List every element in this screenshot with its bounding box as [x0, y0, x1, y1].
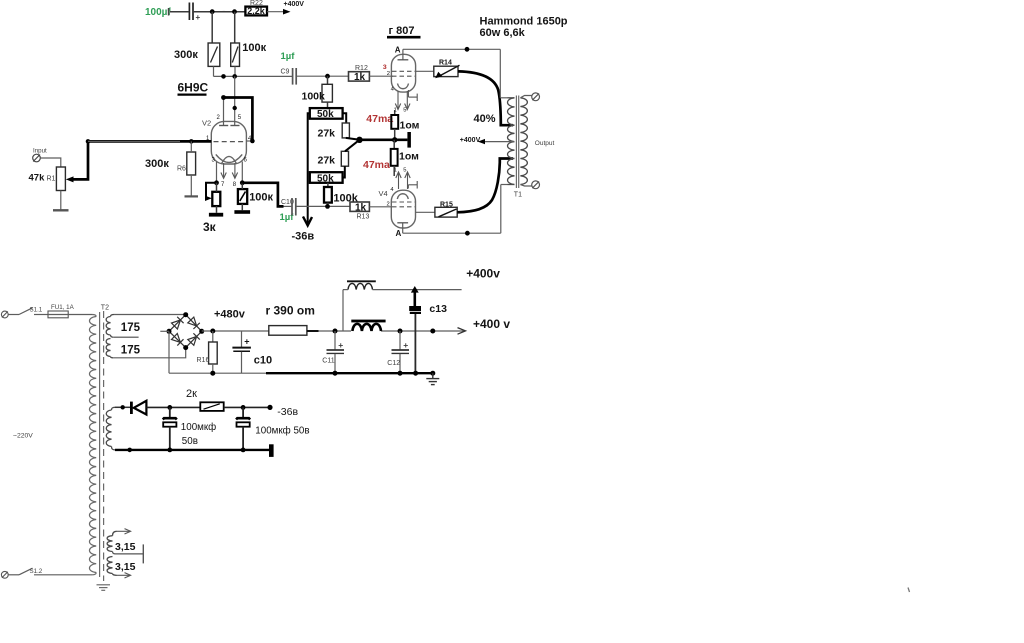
node	[398, 329, 403, 334]
svg-text:V2: V2	[202, 119, 211, 128]
node	[325, 204, 330, 209]
wire to +400V arrow	[267, 1, 304, 15]
svg-text:C12: C12	[387, 360, 400, 367]
svg-text:V4: V4	[379, 189, 388, 198]
resistor 27k upper	[318, 123, 350, 140]
svg-text:100мкф 50в: 100мкф 50в	[255, 425, 309, 436]
wire C10 to R13	[296, 205, 350, 207]
svg-text:47ma: 47ma	[363, 159, 390, 171]
junction thick bus	[356, 132, 411, 148]
wire cathode to C10	[242, 183, 283, 207]
wire thick anode-to-pin4	[224, 98, 253, 142]
resistor R16	[197, 331, 218, 373]
svg-text:A: A	[396, 229, 402, 238]
svg-text:c10: c10	[254, 355, 272, 367]
svg-text:+400 v: +400 v	[473, 317, 510, 331]
svg-text:100к: 100к	[249, 191, 273, 203]
wire R14 to 40% tap (thick curve)	[458, 71, 513, 125]
wire bridge minus down	[168, 331, 170, 373]
svg-text:-36в: -36в	[292, 231, 315, 243]
svg-text:175: 175	[121, 322, 141, 334]
wire pin4 stub	[246, 140, 252, 142]
svg-text:1ом: 1ом	[399, 151, 419, 163]
main B+ rail	[202, 328, 466, 335]
resistor 100k (anode)	[231, 42, 267, 67]
rheostat 3k with wiper	[203, 183, 220, 234]
svg-text:1ом: 1ом	[400, 120, 420, 132]
node	[210, 371, 215, 376]
filament center tap	[113, 544, 144, 563]
wire 2k to -36v	[224, 406, 270, 408]
svg-text:R13: R13	[357, 213, 370, 220]
node	[267, 405, 272, 410]
svg-text:2: 2	[387, 202, 390, 208]
input terminal	[33, 148, 47, 162]
svg-text:Hammond 1650p: Hammond 1650p	[480, 16, 568, 28]
resistor 1om lower	[391, 140, 419, 176]
wire 27k to junction	[346, 138, 360, 140]
svg-text:R16: R16	[197, 357, 210, 364]
resistor 27k lower	[318, 151, 349, 166]
node	[86, 139, 91, 144]
node	[398, 371, 403, 376]
wire	[234, 66, 236, 76]
resistor 1om upper	[391, 110, 419, 140]
center tap +400V arrow	[460, 137, 515, 145]
svg-text:300к: 300к	[145, 158, 169, 170]
potentiometer R1 47k	[29, 167, 66, 191]
resistor r 390 om	[266, 304, 319, 336]
wire	[170, 11, 189, 13]
PSU ground symbol	[426, 373, 439, 384]
svg-text:50в: 50в	[182, 436, 198, 447]
svg-text:47k: 47k	[29, 173, 46, 184]
node	[241, 405, 246, 410]
node	[221, 95, 226, 100]
heater arrows pins 7 8	[221, 163, 238, 178]
100k ground bar	[234, 204, 250, 214]
HV center tap stub	[113, 336, 138, 338]
svg-text:+400V: +400V	[460, 137, 481, 144]
bias feed line -36v	[292, 113, 315, 242]
rheostat 100k cathode	[238, 183, 274, 204]
svg-text:100µf: 100µf	[145, 7, 171, 18]
T2 filament winding 3,15 lower	[107, 557, 116, 576]
node	[241, 448, 246, 453]
svg-text:R6: R6	[177, 166, 186, 173]
T2 chassis ground	[97, 585, 111, 591]
capacitor C12	[387, 331, 409, 373]
resistor R6 300k	[145, 141, 196, 175]
svg-text:5: 5	[403, 168, 406, 174]
resistor R22 2,2k	[245, 0, 267, 16]
node	[411, 286, 419, 293]
node	[167, 448, 172, 453]
svg-text:T2: T2	[101, 304, 109, 311]
svg-text:60w 6,6k: 60w 6,6k	[480, 27, 526, 39]
node	[413, 371, 418, 376]
svg-text:~220V: ~220V	[13, 433, 33, 440]
heater arrows 807 upper	[395, 91, 410, 110]
capacitor C (100uf)	[189, 3, 200, 23]
wire R12 to grid	[369, 75, 391, 77]
trimmer 50k upper	[310, 108, 343, 120]
wire R15 to 40% tap (thick curve)	[457, 159, 513, 213]
svg-text:300к: 300к	[174, 49, 198, 61]
node	[232, 9, 237, 14]
node	[240, 180, 245, 185]
node	[183, 345, 188, 350]
label Hammond	[480, 16, 568, 39]
stray mark	[908, 588, 910, 593]
svg-text:T1: T1	[514, 191, 522, 198]
resistor R15	[435, 201, 457, 217]
node	[333, 371, 338, 376]
svg-text:2к: 2к	[186, 388, 197, 400]
mains terminal bottom	[1, 571, 8, 578]
svg-text:100мкф: 100мкф	[181, 422, 216, 433]
node	[167, 405, 172, 410]
wiper arrow wire to grid	[66, 141, 212, 182]
svg-text:+480v: +480v	[214, 308, 246, 320]
heater arrows 807 lower	[396, 172, 410, 189]
svg-text:27k: 27k	[318, 128, 336, 140]
svg-text:3,15: 3,15	[115, 561, 136, 573]
svg-text:1k: 1k	[355, 202, 367, 213]
svg-text:+: +	[338, 340, 343, 350]
T2 core	[100, 304, 109, 581]
tube 807 lower pin labels	[387, 168, 407, 208]
node	[430, 371, 435, 376]
transformer T1 core	[516, 96, 518, 189]
wire diode to 2k	[146, 406, 200, 408]
transformer T2 primary winding	[89, 315, 96, 575]
wire screen to R14	[416, 70, 434, 72]
capacitor bias 1 (100mkf 50v)	[163, 407, 177, 450]
resistor R14	[434, 60, 460, 79]
cathode lead pin3	[216, 162, 218, 183]
node	[233, 106, 237, 110]
resistor 2k	[186, 388, 224, 411]
diode bias	[130, 401, 146, 415]
wire screen to R15	[416, 211, 435, 213]
node	[333, 329, 338, 334]
trimmer 50k lower	[310, 172, 343, 184]
svg-text:+: +	[196, 13, 201, 22]
node	[214, 180, 219, 185]
anode bottom loop wire	[403, 185, 508, 234]
node	[167, 329, 172, 334]
node	[189, 139, 194, 144]
beam plate mark lower	[408, 181, 417, 189]
capacitor C10 1uf	[280, 198, 296, 223]
svg-text:з: з	[383, 62, 387, 71]
node	[121, 405, 125, 409]
HV top lead	[114, 314, 186, 316]
wire anode node row	[214, 75, 293, 77]
node	[430, 329, 435, 334]
tube V2 6H9C envelope	[202, 119, 246, 165]
node	[127, 448, 132, 453]
switch S1.2	[8, 568, 92, 575]
svg-text:Output: Output	[535, 140, 555, 147]
svg-text:6H9C: 6H9C	[178, 81, 209, 95]
svg-text:+: +	[403, 340, 408, 350]
svg-text:+: +	[244, 337, 249, 347]
HV bottom lead	[113, 348, 185, 358]
capacitor c13	[409, 290, 447, 374]
wire	[213, 66, 215, 76]
tube 807 upper internals	[392, 49, 415, 88]
node	[221, 74, 226, 79]
pot ground	[53, 191, 69, 211]
resistor 100k upper	[302, 76, 333, 108]
wire fuse to primary	[68, 314, 92, 316]
wire R13 to grid V4	[369, 206, 391, 208]
resistor 300k (anode)	[174, 43, 220, 66]
anode top loop wire	[403, 49, 508, 98]
label 100mkf 50v left	[181, 422, 216, 447]
transformer T1 primary winding	[508, 98, 515, 185]
switch S1.1	[8, 307, 48, 315]
node	[465, 47, 470, 52]
resistor 100k lower	[324, 183, 359, 207]
svg-text:S1.1: S1.1	[30, 307, 43, 314]
choke upper	[343, 281, 462, 331]
tube V2 pin labels	[206, 115, 252, 188]
wire	[211, 12, 213, 43]
mains terminal top	[1, 311, 8, 318]
wire 27k lower to 50k lower	[343, 166, 345, 177]
svg-text:C9: C9	[281, 69, 290, 76]
filament arrow bottom	[117, 573, 131, 578]
node	[250, 139, 255, 144]
svg-text:R1: R1	[47, 176, 56, 183]
svg-text:100k: 100k	[302, 90, 326, 102]
node	[183, 312, 188, 317]
label 6H9C	[178, 81, 209, 95]
svg-text:175: 175	[121, 345, 141, 357]
svg-text:47ma: 47ma	[366, 113, 393, 125]
transformer T1 secondary winding	[520, 98, 527, 185]
svg-text:c13: c13	[429, 303, 447, 315]
bridge rectifier	[169, 315, 202, 348]
svg-text:27k: 27k	[318, 154, 336, 166]
node	[325, 74, 330, 79]
stub left of bridge	[160, 330, 169, 332]
fuse FU1 1A	[48, 304, 75, 318]
svg-text:C11: C11	[322, 358, 334, 365]
svg-text:г 807: г 807	[389, 25, 415, 37]
T2 HV secondary 175+175	[106, 315, 114, 358]
svg-text:1: 1	[394, 108, 397, 114]
node	[210, 329, 215, 334]
T2 bias winding	[106, 407, 115, 450]
svg-text:1µf: 1µf	[281, 51, 296, 62]
svg-text:5: 5	[403, 108, 406, 114]
filament arrow top	[117, 529, 131, 534]
wire 50k to 27k upper	[343, 113, 347, 123]
svg-text:+400V: +400V	[284, 1, 305, 8]
wire input to pot	[40, 158, 61, 167]
wire grid stub pin1	[88, 140, 180, 142]
node	[465, 231, 470, 236]
svg-text:r 390 om: r 390 om	[266, 304, 315, 318]
wire C9 to R12	[297, 75, 349, 77]
tube 807 lower envelope	[379, 189, 416, 228]
svg-text:3,15: 3,15	[115, 541, 136, 553]
capacitor C11	[322, 331, 344, 373]
bias ground rail	[115, 444, 274, 457]
T2 filament winding 3,15 upper	[107, 531, 116, 551]
wire	[234, 12, 236, 43]
svg-text:-36в: -36в	[277, 406, 298, 418]
svg-text:A: A	[395, 46, 401, 55]
beam plate mark upper	[408, 90, 417, 101]
svg-text:50k: 50k	[317, 109, 334, 120]
T1 secondary terminals	[520, 93, 539, 189]
svg-text:40%: 40%	[474, 113, 496, 125]
tube 807 lower internals	[392, 194, 415, 233]
tube 807 upper pin labels	[387, 71, 407, 113]
node	[210, 9, 215, 14]
wire bias top	[115, 406, 130, 408]
svg-text:1k: 1k	[354, 72, 366, 83]
wire grid stub upper	[391, 75, 393, 77]
label g807	[387, 25, 421, 37]
choke in rail	[351, 320, 385, 331]
resistor R13 1k	[350, 202, 369, 220]
wire B+ top	[194, 11, 246, 13]
ground rail PSU	[169, 372, 433, 374]
capacitor 100uf label	[145, 7, 171, 18]
svg-text:1: 1	[394, 168, 397, 174]
tube 807 upper envelope	[391, 46, 415, 93]
svg-text:S1.2: S1.2	[30, 568, 43, 575]
cathode lead pin6	[241, 162, 243, 183]
node	[199, 329, 204, 334]
node	[232, 74, 237, 79]
resistor R12 1k	[349, 65, 370, 83]
svg-text:2: 2	[387, 71, 390, 77]
svg-text:100к: 100к	[242, 42, 266, 54]
svg-text:50k: 50k	[317, 173, 334, 184]
wire 27k lower to junction	[345, 140, 360, 152]
3k ground bar	[209, 206, 223, 217]
svg-text:3к: 3к	[203, 220, 217, 234]
svg-text:Input: Input	[33, 148, 47, 155]
capacitor bias 2 (100mkf 50v)	[236, 407, 250, 450]
R6 ground	[185, 175, 199, 196]
svg-text:2,2k: 2,2k	[247, 6, 266, 16]
svg-text:FU1, 1A: FU1, 1A	[51, 304, 75, 311]
svg-text:+400v: +400v	[466, 266, 500, 280]
capacitor C9 1uf	[281, 51, 297, 85]
tube V2 internals: anodes, grids, cathode	[214, 76, 245, 163]
capacitor c10	[232, 331, 272, 373]
